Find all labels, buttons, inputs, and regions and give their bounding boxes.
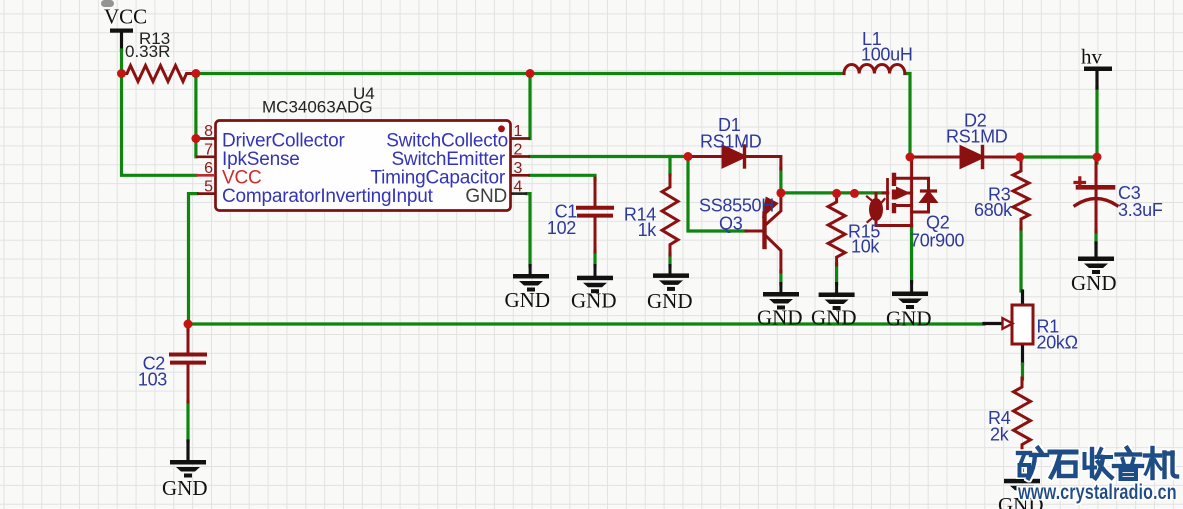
svg-text:VCC: VCC (104, 5, 147, 29)
node D1 anode (684, 152, 693, 161)
watermark char ji (1145, 448, 1177, 478)
wire L1 right to Q2 drain node (905, 74, 910, 158)
svg-text:3: 3 (514, 160, 523, 177)
transistor Q3 SS8550H (PNP) (746, 195, 781, 272)
svg-text:SS8550H: SS8550H (699, 196, 774, 216)
wire pin3 to C1 top (530, 175, 595, 180)
svg-text:RS1MD: RS1MD (700, 132, 762, 152)
svg-text:RS1MD: RS1MD (946, 127, 1008, 147)
node Q3 emitter (776, 188, 785, 197)
node pin1 rail (526, 69, 535, 78)
wire feedback rail to R1 wiper (188, 322, 984, 325)
svg-text:10k: 10k (851, 237, 880, 257)
svg-text:www.crystalradio.cn: www.crystalradio.cn (1017, 480, 1177, 503)
svg-text:GND: GND (465, 186, 507, 207)
ground under C1 (577, 264, 613, 293)
wire D1 cathode corner down to gate net (779, 168, 782, 193)
svg-text:1: 1 (514, 123, 523, 140)
wire C1 bottom to ground (593, 251, 596, 266)
zener diode gate clamp (867, 194, 912, 226)
wire R15 bottom to ground (835, 264, 838, 284)
wire R13 left node down to pin6 VCC (122, 74, 197, 176)
ground under R14 (653, 264, 689, 291)
svg-text:1k: 1k (638, 220, 658, 240)
svg-text:8: 8 (204, 123, 213, 140)
pin 1 marker dot (498, 125, 505, 132)
svg-text:2k: 2k (990, 425, 1010, 445)
wire gate net from Q3 emitter node to Q2 gate (781, 191, 887, 194)
wire C3 bottom to ground (1094, 231, 1097, 243)
resistor R15 (828, 193, 845, 265)
wire top rail to L1 left (530, 72, 844, 75)
watermark char shou (1085, 449, 1112, 478)
VCC power flag (110, 29, 133, 33)
potentiometer R1 (1003, 305, 1034, 344)
ground under Q2 (892, 280, 928, 309)
wire R4 bottom to ground (1020, 460, 1023, 479)
wire C2 top lead (186, 324, 189, 330)
resistor R13 (122, 66, 197, 82)
svg-text:20kΩ: 20kΩ (1037, 333, 1078, 353)
node feedback C2 (184, 320, 193, 329)
transistor Q2 MOSFET with body diode (883, 157, 937, 226)
svg-text:680k: 680k (974, 200, 1013, 220)
svg-text:GND: GND (757, 306, 803, 330)
wire Q3 collector to ground (779, 271, 782, 284)
wire D2 cathode to output node (1020, 155, 1097, 158)
node output hv (1093, 153, 1102, 162)
wire R14 tap from pin2 net (668, 157, 671, 176)
svg-text:GND: GND (1071, 271, 1117, 295)
scrollbar remnant top-left (101, 0, 114, 7)
wire R13 right node down to pin7 / pin8 (194, 74, 197, 157)
svg-text:GND: GND (647, 289, 693, 313)
svg-text:5: 5 (204, 179, 213, 196)
svg-text:70r900: 70r900 (910, 231, 965, 251)
svg-text:hv: hv (1081, 45, 1103, 69)
diode D1 (688, 146, 781, 169)
node D2 cathode (1015, 153, 1024, 162)
watermark char kuang (1018, 448, 1047, 478)
wire output node down to C3 (1095, 157, 1098, 163)
wire R1 bottom to R4 top (1021, 344, 1024, 364)
svg-text:GND: GND (162, 476, 208, 500)
wire D1 node down and right to Q3 base (688, 157, 746, 232)
svg-text:GND: GND (571, 289, 617, 313)
pin stubs right (511, 137, 530, 140)
svg-text:3.3uF: 3.3uF (1118, 200, 1163, 220)
resistor R4 (1014, 378, 1031, 461)
svg-text:Q3: Q3 (719, 214, 743, 234)
ground under pin4 (513, 264, 549, 292)
hv power flag (1084, 67, 1112, 72)
wire R13 right node to top rail (196, 72, 530, 75)
capacitor C1 (578, 178, 612, 252)
svg-text:Q2: Q2 (926, 213, 950, 233)
watermark crystalradio (1017, 448, 1177, 503)
svg-text:6: 6 (204, 160, 213, 177)
capacitor C3 polarized (1075, 162, 1117, 232)
svg-text:ComparatorInvertingInput: ComparatorInvertingInput (222, 186, 434, 207)
ground under Q3 (763, 282, 799, 310)
ground under R4 (1004, 479, 1040, 497)
node R13 right (191, 69, 200, 78)
svg-text:GND: GND (505, 288, 551, 312)
wire pin1 drop from top rail (528, 74, 531, 139)
wire VCC flag to R13 left node (120, 33, 123, 50)
diode D2 (910, 147, 1020, 168)
node Q2 drain (906, 153, 915, 162)
resistor R14 (662, 175, 678, 255)
wire C2 bottom to ground (186, 401, 189, 441)
wire Q2 source to ground (910, 226, 913, 282)
node R13 left (117, 69, 126, 78)
pin stubs left (196, 139, 530, 194)
capacitor C2 (171, 326, 205, 402)
wire R14 bottom to ground (668, 254, 671, 266)
svg-text:102: 102 (547, 218, 576, 238)
svg-text:GND: GND (886, 307, 932, 331)
resistor R3 (1013, 157, 1029, 229)
IC U4 MC34063ADG body (196, 121, 530, 211)
ground under R15 (819, 282, 855, 310)
wire R3 bottom down to R1 top (1019, 228, 1022, 291)
ground under C3 (1078, 257, 1114, 275)
svg-text:2: 2 (514, 142, 523, 159)
ground under C2 (170, 460, 206, 478)
svg-text:0.33R: 0.33R (125, 42, 170, 61)
node R15 top (832, 189, 841, 198)
wire pin5 down to feedback rail (189, 194, 198, 324)
wire hv flag down to output node (1095, 88, 1098, 157)
wire pin2 SwitchEmitter to D1 node (530, 155, 688, 158)
svg-text:4: 4 (514, 179, 523, 196)
watermark char yin (1114, 448, 1142, 479)
svg-text:7: 7 (204, 142, 213, 159)
svg-text:GND: GND (811, 306, 857, 330)
node gate (850, 189, 859, 198)
watermark char shi (1050, 452, 1076, 477)
node pin8 (191, 134, 200, 143)
svg-text:MC34063ADG: MC34063ADG (262, 98, 373, 117)
svg-text:100uH: 100uH (861, 45, 913, 65)
wire pin4 GND drop (527, 194, 530, 266)
inductor L1 (844, 64, 905, 73)
svg-text:103: 103 (138, 370, 167, 390)
